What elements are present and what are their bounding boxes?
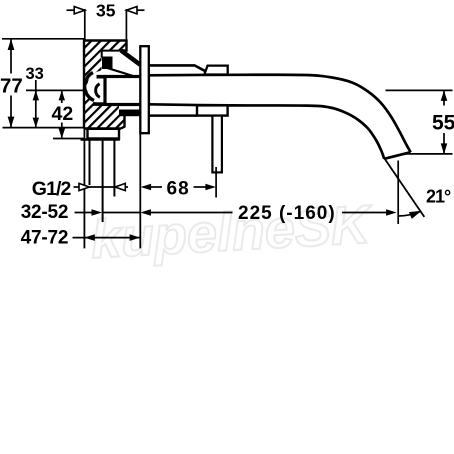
svg-text:42: 42 bbox=[52, 103, 74, 125]
svg-text:68: 68 bbox=[167, 179, 190, 200]
svg-text:21°: 21° bbox=[426, 187, 451, 207]
svg-text:G1/2: G1/2 bbox=[32, 178, 72, 200]
svg-text:32-52: 32-52 bbox=[21, 202, 69, 223]
svg-text:35: 35 bbox=[96, 1, 116, 21]
svg-text:225 (-160): 225 (-160) bbox=[238, 203, 336, 224]
svg-text:55: 55 bbox=[432, 112, 454, 135]
svg-text:47-72: 47-72 bbox=[21, 228, 69, 249]
svg-text:77: 77 bbox=[0, 74, 23, 97]
svg-text:33: 33 bbox=[26, 65, 44, 83]
